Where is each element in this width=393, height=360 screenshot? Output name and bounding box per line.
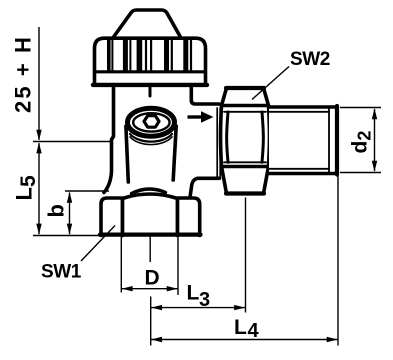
arrow L5 up [36,142,41,153]
svg-text:L: L [187,282,200,305]
union nut bottom face [226,191,264,195]
L4 dim line [151,339,338,341]
L3 right extension [245,198,247,313]
dim line 25+H [38,27,40,140]
handwheel cap trapezoid [113,10,181,38]
D extension left [120,236,122,293]
svg-text:4: 4 [248,320,260,342]
arrow d2 up [372,108,377,119]
insert cylinder sides [126,126,128,182]
insert cap rim arc [130,134,172,142]
arrow L4 left [151,337,162,342]
D extension right [177,236,179,295]
male thread end face [335,106,339,175]
svg-text:D: D [145,267,160,290]
outlet bottom line [190,178,219,196]
extension line b top [65,190,109,192]
body shoulder arc [132,189,166,194]
handwheel body rounded rect [95,38,206,85]
male thread outline [269,107,337,174]
svg-text:b: b [44,204,69,217]
arrow b up [67,192,72,203]
dim line L5 [38,143,40,234]
arrow D left [122,286,133,291]
handwheel ribs [109,40,191,71]
arrow L3 right [234,305,245,310]
arrow 25+H down [36,130,41,141]
d2 dim line [374,109,376,171]
arrow b down [67,224,72,235]
male thread core lines [269,111,329,113]
arrowheads [36,108,377,342]
arrow D right [167,286,178,291]
centerline upper piece [149,236,151,262]
union nut facet curve right [262,112,263,162]
nut SW1 middle facet [123,194,178,236]
insert cap inner ellipse [133,113,169,131]
arrow L3 left [151,305,162,310]
extension line y141.5 [33,141,111,143]
dim line b [69,193,71,235]
d2 extension bottom [340,172,381,174]
SW1 leader [81,226,115,262]
flow arrow [188,111,214,123]
handwheel bottom edge [93,83,207,87]
bonnet center tick [149,86,152,96]
arrow d2 down [372,161,377,172]
insert cap outer ellipse [128,108,175,136]
bonnet right line + outlet top [191,86,219,104]
D dim line [121,288,178,290]
nut SW1 bottom face [100,233,201,237]
extension line y235.5 [33,235,101,237]
union nut top face [226,86,264,90]
SW2 leader [252,67,289,100]
union nut thin line top [224,111,266,113]
svg-text:L: L [234,316,247,339]
L3 dim line [151,307,246,309]
insert cap rim arc thin [130,137,172,145]
union nut SW2 body [221,88,270,194]
d2 extension top [340,107,381,109]
union nut facet curve left [227,112,228,162]
union nut chamfer line bottom [222,165,269,168]
arrow L4 right [327,337,338,342]
male thread chamfer line [328,108,330,174]
bonnet left line [104,86,114,193]
centerline lower piece / L3 L4 extension [150,297,152,346]
arrow L5 down [36,224,41,235]
svg-text:SW2: SW2 [290,49,330,70]
hex socket [144,116,159,128]
nut SW1 right facet [178,198,200,236]
union nut chamfer line top [222,104,269,107]
svg-text:3: 3 [199,289,210,311]
nut SW1 left facet [101,198,123,236]
dimension graphics [33,27,381,346]
union nut thin line bottom [224,161,266,163]
handwheel band line [96,70,205,73]
L4 right extension [337,176,339,346]
svg-text:SW1: SW1 [41,262,82,283]
svg-text:25 + H: 25 + H [11,35,36,113]
union face lines [216,108,218,177]
